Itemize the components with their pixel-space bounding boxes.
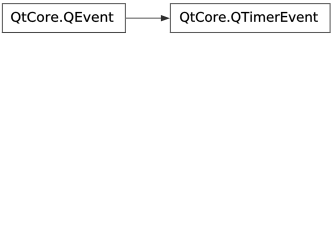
box1 bottom edge emphasis (2, 32, 126, 34)
arrowhead (161, 15, 170, 21)
node QtCore.QEvent box (2, 4, 125, 33)
node QtCore.QEvent label (11, 12, 113, 24)
box2 bottom edge emphasis (170, 32, 331, 34)
background (0, 0, 333, 36)
wire arrow shaft (126, 17, 162, 19)
node QtCore.QTimerEvent label (180, 12, 318, 24)
node QtCore.QTimerEvent box (170, 4, 330, 33)
